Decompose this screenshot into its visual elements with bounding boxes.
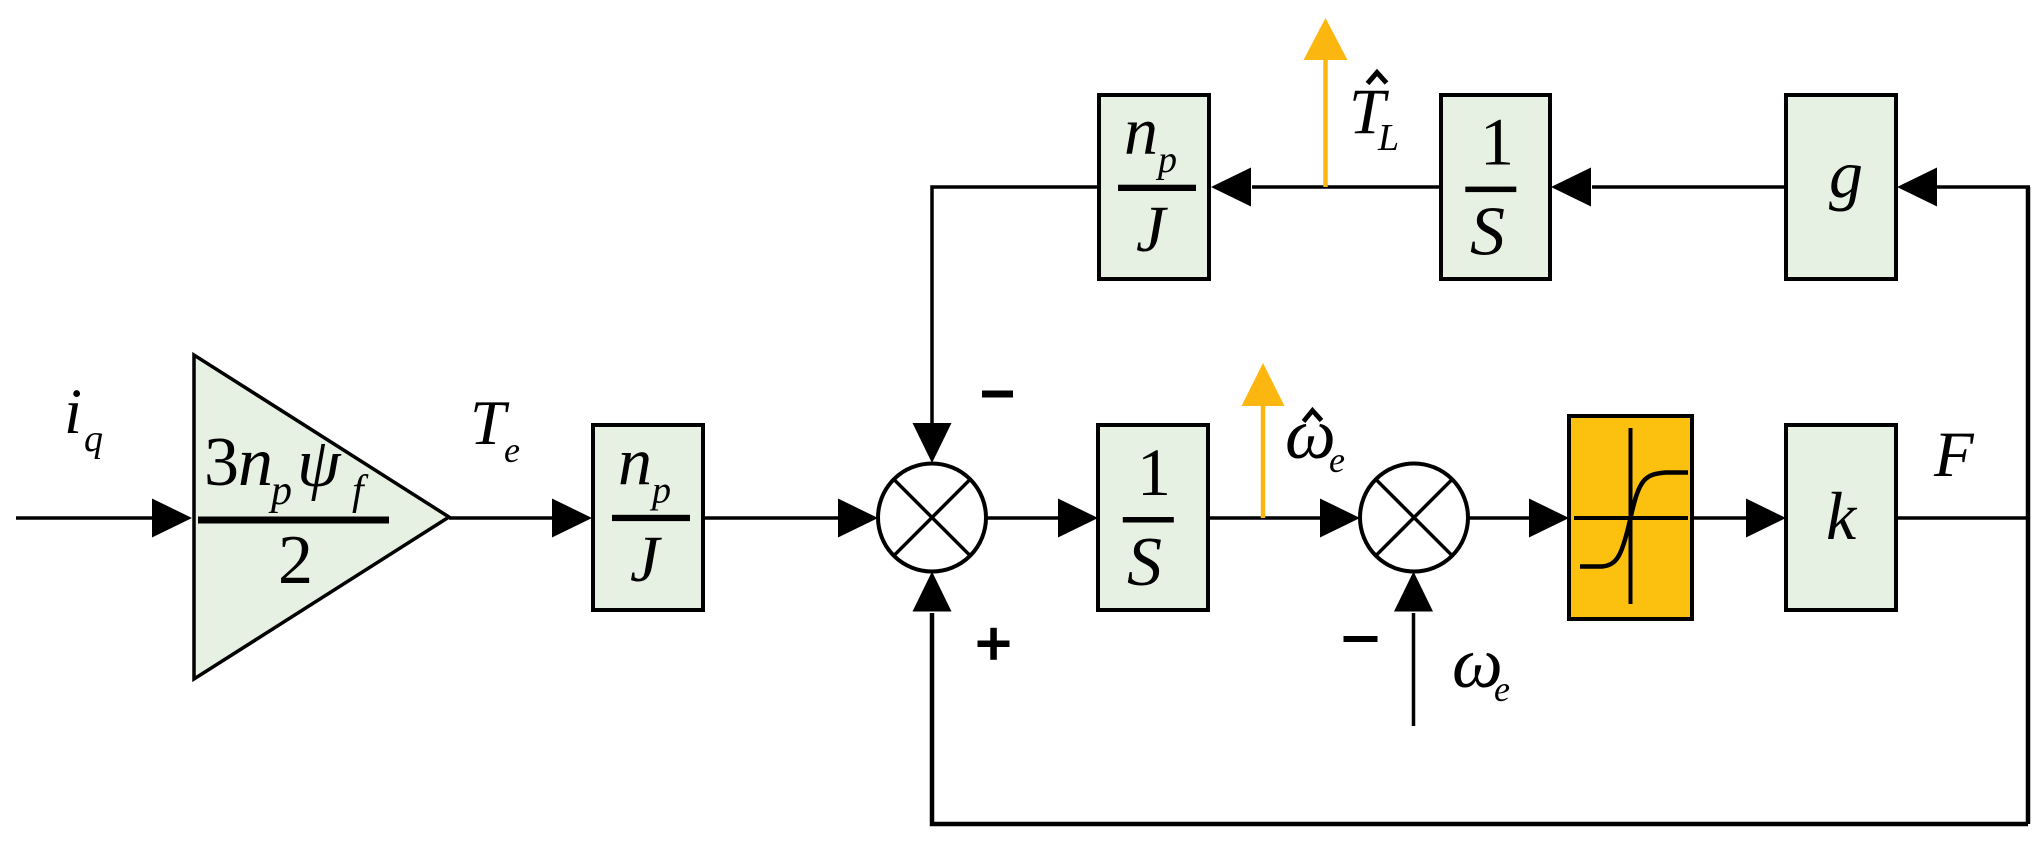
gain value label 3np psi_f over 2: [198, 424, 389, 599]
svg-text:1: 1: [1480, 104, 1514, 180]
arrowhead up into junction 1 (bottom): [913, 572, 952, 612]
arrowhead into saturation block: [1529, 499, 1569, 538]
label np/J (mid): [612, 423, 690, 596]
summing junction 2: [1360, 464, 1468, 572]
svg-text:n: n: [1124, 93, 1158, 169]
wire triangle to np/J block: [449, 516, 553, 520]
sign plus (bottom input of junction 1): [978, 628, 1010, 660]
orange arrow TL hat (estimated load torque output): [1304, 18, 1348, 187]
label 1/S (mid): [1123, 434, 1174, 601]
svg-text:e: e: [1494, 669, 1510, 709]
svg-text:n: n: [238, 424, 273, 501]
arrowhead into g block: [1897, 168, 1937, 207]
arrowhead into np/J (top): [1211, 168, 1251, 207]
svg-text:p: p: [1155, 139, 1177, 181]
svg-text:k: k: [1826, 478, 1858, 554]
svg-text:J: J: [630, 523, 662, 596]
svg-text:L: L: [1377, 117, 1399, 159]
svg-text:g: g: [1829, 136, 1863, 212]
block k: [1786, 425, 1896, 610]
node label TL hat: [1349, 73, 1399, 160]
wire np/J to summing junction 1: [703, 516, 840, 520]
svg-text:3: 3: [204, 424, 239, 501]
arrowhead into 1/S (mid): [1058, 499, 1098, 538]
label 1/S (top): [1465, 104, 1516, 271]
orange arrow omega_e hat (estimated speed output): [1242, 363, 1285, 518]
node label Te: [470, 387, 520, 470]
saturation axes: [1574, 428, 1688, 604]
wire bottom feedback: [932, 613, 2028, 824]
node label omega_e hat: [1285, 394, 1345, 480]
svg-text:n: n: [618, 423, 652, 499]
gain block triangle 3np*psi_f/2: [194, 355, 449, 679]
svg-text:e: e: [504, 430, 520, 470]
arrowhead into summing junction 2: [1320, 499, 1360, 538]
summing junction 1: [878, 464, 986, 572]
wire g to 1/S (top): [1592, 185, 1786, 189]
block 1/S (top): [1441, 95, 1550, 279]
arrowhead into summing junction 1: [838, 499, 878, 538]
wire top feedback to g: [1936, 185, 2030, 189]
saturation (sigmoid) block: [1569, 416, 1692, 619]
arrowhead into np/J block: [552, 499, 592, 538]
wire 1/S (top) to np/J (top): [1252, 185, 1441, 189]
wire 1/S to summing junction 2: [1208, 516, 1322, 520]
arrowhead into gain triangle: [152, 499, 192, 538]
svg-text:S: S: [1127, 524, 1162, 601]
wire omega_e input from below: [1412, 613, 1416, 726]
svg-text:1: 1: [1137, 434, 1171, 510]
svg-text:ψ: ψ: [297, 425, 342, 502]
wire from top row down into junction 1: [932, 187, 1099, 425]
node label omega_e: [1452, 623, 1510, 709]
wire right vertical feedback: [2026, 187, 2031, 824]
wire junction 1 to 1/S (mid): [986, 516, 1061, 520]
block np/J (mid): [593, 425, 703, 610]
svg-text:i: i: [64, 376, 82, 448]
wire input iq: [16, 516, 155, 520]
svg-text:e: e: [1329, 440, 1345, 480]
svg-text:2: 2: [278, 522, 313, 599]
arrowhead down into junction 1: [913, 423, 952, 463]
wire k to right feedback node: [1896, 516, 2028, 520]
sign minus (bottom input of junction 2): [1344, 636, 1378, 642]
svg-text:p: p: [649, 470, 671, 512]
svg-text:F: F: [1933, 419, 1975, 491]
label np/J (top): [1118, 93, 1196, 267]
svg-text:S: S: [1470, 194, 1505, 271]
sign minus (top input of junction 1): [982, 391, 1013, 398]
node label iq: [64, 376, 103, 460]
svg-text:J: J: [1136, 193, 1168, 266]
wire saturation to k block: [1692, 516, 1748, 520]
block g: [1786, 95, 1896, 279]
arrowhead into 1/S (top): [1551, 168, 1591, 207]
wire junction 2 to saturation block: [1468, 516, 1531, 520]
arrowhead up into junction 2: [1394, 572, 1433, 612]
arrowhead into k block: [1746, 499, 1786, 538]
saturation sigmoid curve: [1580, 473, 1688, 567]
svg-text:p: p: [268, 468, 292, 514]
block 1/S (mid): [1098, 425, 1208, 610]
block np/J (top): [1099, 95, 1209, 279]
svg-text:q: q: [84, 418, 103, 460]
